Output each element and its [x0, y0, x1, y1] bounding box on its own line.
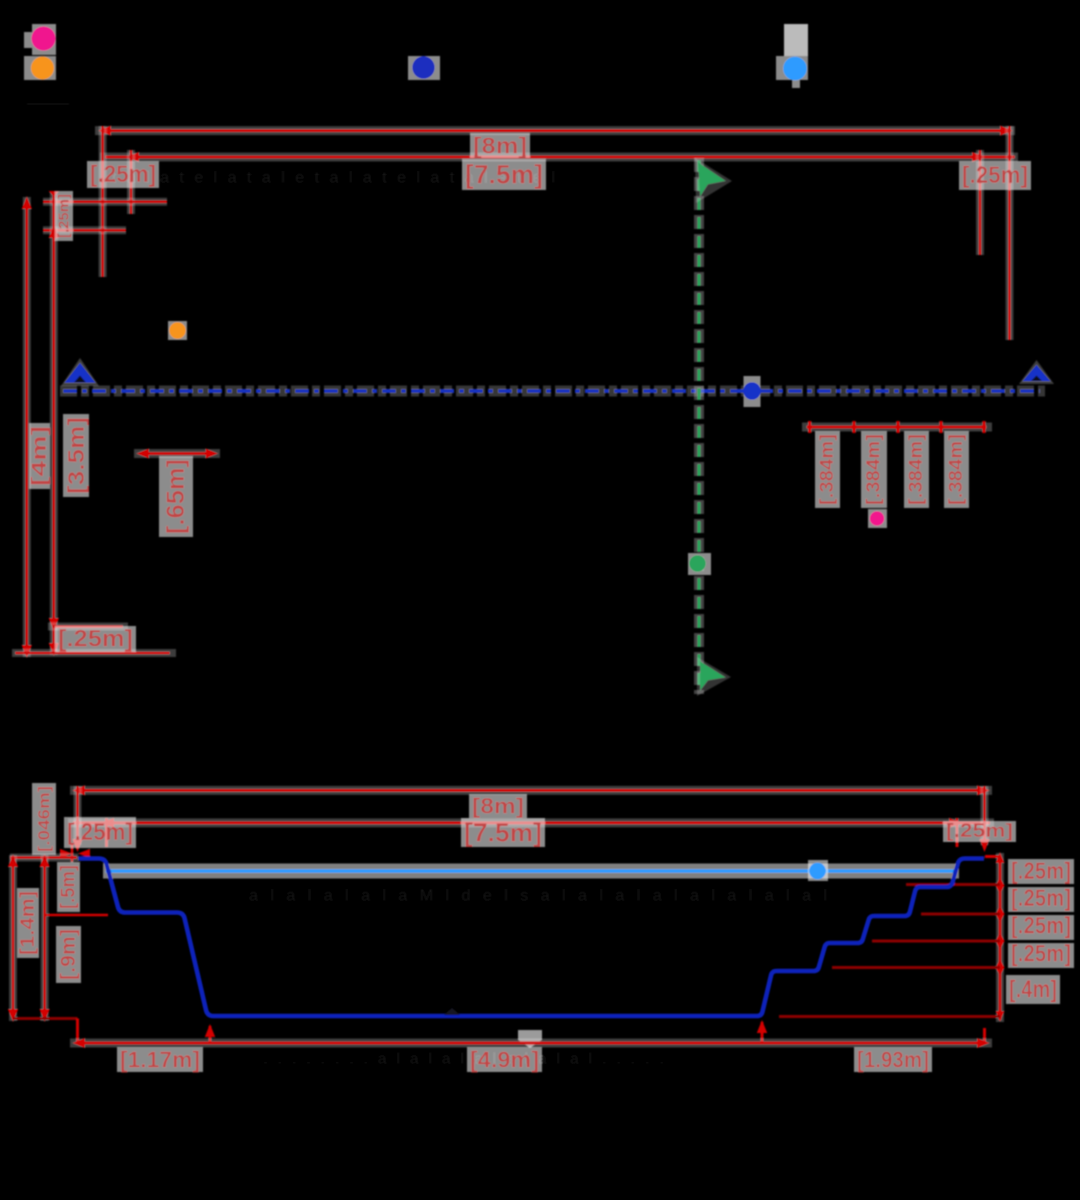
- label [.25m] step3 right: [1008, 915, 1074, 940]
- svg-text:[.25m]: [.25m]: [962, 162, 1028, 189]
- label [3.5m] rotated left: [63, 414, 89, 497]
- label [.046m] rotated section left: [32, 783, 56, 855]
- dimension line [8m] plan: [95, 126, 1015, 135]
- label [.4m] right: [1006, 975, 1060, 1004]
- section cut centerline blue dashed: [63, 389, 1040, 393]
- extension vertical x=106.5 section: [105, 818, 108, 847]
- tick x=984: [982, 421, 985, 433]
- green axis dashed line: [697, 160, 701, 692]
- centerline node dot casing: [744, 376, 761, 407]
- step extension y=967.5: [832, 966, 1000, 969]
- svg-text:[4.9m]: [4.9m]: [470, 1047, 539, 1073]
- dimension line [4m] vertical left: [23, 197, 31, 657]
- step extension y=941: [872, 940, 1000, 943]
- label [.25m] plan top-right: [959, 161, 1031, 190]
- left extension y=857.5 section: [10, 854, 78, 862]
- svg-text:[.384m]: [.384m]: [817, 434, 838, 505]
- svg-text:[.25m]: [.25m]: [90, 161, 156, 188]
- label [4.9m] bottom: [467, 1047, 542, 1072]
- label [.65m] rotated plan: [159, 456, 193, 537]
- label [4m] rotated left: [29, 423, 50, 489]
- step extension y=914: [921, 913, 1000, 916]
- svg-text:[.25m]: [.25m]: [1011, 941, 1071, 968]
- svg-text:[.5m]: [.5m]: [58, 865, 80, 909]
- svg-text:[.25m]: [.25m]: [1011, 858, 1071, 885]
- svg-text:[.25m]: [.25m]: [67, 819, 133, 846]
- tick y=915 left chain: [45, 914, 108, 917]
- svg-text:[.384m]: [.384m]: [906, 434, 927, 505]
- svg-text:[.9m]: [.9m]: [57, 929, 80, 980]
- centerline node dot: [743, 382, 761, 400]
- step extension y=884.5: [906, 883, 1000, 886]
- bottom-left extension y=1018.5: [13, 1017, 78, 1020]
- right dimension vertical x=1000: [996, 853, 1004, 1022]
- water node dot casing: [808, 860, 828, 881]
- label [1.17m] bottom: [117, 1047, 203, 1072]
- green axis node dot: [689, 555, 706, 572]
- extension line x=102.6 plan top-left: [99, 126, 107, 277]
- extension line x=131 plan: [127, 150, 135, 214]
- dimension line [8m] section: [70, 786, 992, 795]
- label [.25m] step4 right: [1008, 943, 1074, 968]
- extension line x=1009.5 plan: [1006, 126, 1014, 340]
- right corner horizontal y=856.5: [985, 855, 1000, 858]
- green axis line casing: [694, 158, 704, 694]
- tick x=854: [852, 421, 855, 433]
- extension line y=230 plan top-left: [43, 226, 126, 234]
- label [.25m] section top-right: [943, 821, 1016, 842]
- extension line y=653 plan bottom-left: [12, 649, 176, 657]
- svg-text:[.25m]: [.25m]: [58, 626, 133, 653]
- svg-text:[.384m]: [.384m]: [946, 434, 967, 505]
- legend marker pink background: [32, 24, 56, 55]
- green axis bottom flag: [697, 657, 731, 696]
- step extension y=1016.5: [779, 1015, 1000, 1018]
- svg-text:_____: _____: [26, 89, 69, 106]
- grey pin marker on bottom line: [518, 1030, 542, 1048]
- tick x=898: [896, 421, 899, 433]
- dimension chain x=44.6: [41, 855, 49, 1021]
- legend marker light-blue dot: [783, 57, 807, 81]
- label [7.5m] plan: [462, 159, 546, 190]
- label [8m] section: [469, 794, 527, 818]
- right tick arrows: [996, 852, 1005, 863]
- extension line y=202 plan top-left: [43, 198, 167, 206]
- centerline left arrow: [64, 363, 96, 384]
- centerline right arrow: [1022, 365, 1051, 382]
- label [.9m] rotated: [56, 926, 81, 983]
- tick x=941: [939, 421, 942, 433]
- extension vertical x=762 bottom: [761, 1022, 764, 1043]
- label [1.4m] rotated: [17, 888, 39, 958]
- svg-text:[.046m]: [.046m]: [35, 786, 54, 852]
- legend marker orange background: [24, 56, 56, 80]
- svg-text:[.25m]: [.25m]: [56, 194, 73, 238]
- bottom dimension line section: [70, 1039, 992, 1048]
- extension vertical x=957 section: [956, 818, 959, 847]
- label [.384m] rotated step 4: [944, 431, 969, 508]
- label [.5m] rotated: [57, 862, 80, 912]
- svg-text:[1.93m]: [1.93m]: [857, 1047, 929, 1073]
- label [.25m] plan top-left: [87, 161, 159, 188]
- extension vertical x=210 bottom: [209, 1026, 212, 1043]
- extension vertical x=77.5 section: [74, 786, 82, 845]
- pool shell outline section: [78, 859, 984, 1017]
- extension vertical x=984.5 bottom: [983, 1028, 986, 1043]
- label [.25m] step1 right: [1008, 859, 1074, 884]
- legend marker light-blue background: [776, 56, 808, 80]
- section cut centerline casing: [60, 386, 1045, 397]
- svg-text:[.65m]: [.65m]: [162, 459, 190, 534]
- dimension line [7.5m] section: [68, 818, 994, 827]
- svg-text:. . . . . . . . a l a l a l a: . . . . . . . . a l a l a l a l a l a l …: [263, 1051, 666, 1068]
- water line: [106, 869, 958, 873]
- svg-text:[4m]: [4m]: [28, 426, 51, 486]
- label [.25m] step2 right: [1008, 887, 1074, 912]
- extension line x=980 plan: [976, 150, 984, 255]
- svg-text:[7.5m]: [7.5m]: [465, 160, 543, 190]
- label [.384m] rotated step 1: [815, 431, 840, 508]
- svg-text:[.25m]: [.25m]: [1011, 885, 1071, 912]
- svg-text:[7.5m]: [7.5m]: [464, 818, 542, 848]
- legend marker pink dot: [31, 26, 56, 51]
- legend marker grey rectangle: [784, 24, 808, 56]
- label [1.93m] bottom: [854, 1047, 932, 1072]
- centerline right arrow casing: [1019, 360, 1054, 384]
- svg-text:[.25m]: [.25m]: [1011, 913, 1071, 940]
- legend marker dark-blue dot: [412, 56, 435, 79]
- extension line y=626.5 plan bottom-left: [48, 623, 128, 631]
- svg-text:a l a l a l a l a M l d e l s: a l a l a l a l a M l d e l s a l a l a …: [249, 888, 831, 905]
- green axis top flag: [695, 158, 732, 203]
- svg-text:[1.4m]: [1.4m]: [17, 891, 39, 955]
- tick x=810: [808, 421, 811, 433]
- dimension line [3.5m] vertical left: [50, 192, 58, 655]
- centerline left arrow casing: [61, 358, 99, 386]
- svg-text:[.4m]: [.4m]: [1009, 976, 1057, 1004]
- svg-text:[.384m]: [.384m]: [864, 434, 885, 505]
- label [.384m] rotated step 2: [861, 431, 887, 508]
- legend marker dark-blue background: [408, 56, 440, 80]
- label [.25m] plan bottom-left: [55, 626, 136, 652]
- dimension line [1.4m] x=13: [9, 855, 17, 1021]
- legend marker orange dot: [31, 56, 54, 79]
- floor fitting notch: [444, 1008, 460, 1015]
- label [.384m] rotated step 3: [904, 431, 929, 508]
- label [.25m] rotated small top-left: [55, 191, 73, 241]
- water node dot: [809, 863, 826, 880]
- svg-text:[1.17m]: [1.17m]: [120, 1047, 200, 1073]
- extension vertical x=77.5 bottom: [76, 1019, 79, 1044]
- extension vertical x=984.5 section: [981, 786, 989, 845]
- dimension line [.65m] plan: [134, 449, 220, 458]
- dimension line [7.5m] plan: [100, 153, 1018, 162]
- svg-text:[8m]: [8m]: [472, 794, 524, 819]
- orange node dot plan: [168, 321, 187, 340]
- svg-text:[3.5m]: [3.5m]: [63, 417, 89, 494]
- svg-text:[.25m]: [.25m]: [946, 821, 1013, 842]
- tiny dimension [.046m] parts: [71, 845, 74, 862]
- label [.25m] section top-left: [64, 817, 136, 848]
- label [8m] plan: [470, 133, 530, 158]
- water line casing: [103, 864, 959, 879]
- label [7.5m] section: [461, 818, 545, 847]
- svg-text:[8m]: [8m]: [473, 133, 527, 159]
- dimension chain line plan right steps: [802, 423, 992, 432]
- green axis node dot casing: [688, 553, 711, 575]
- pink node dot plan: [868, 509, 887, 528]
